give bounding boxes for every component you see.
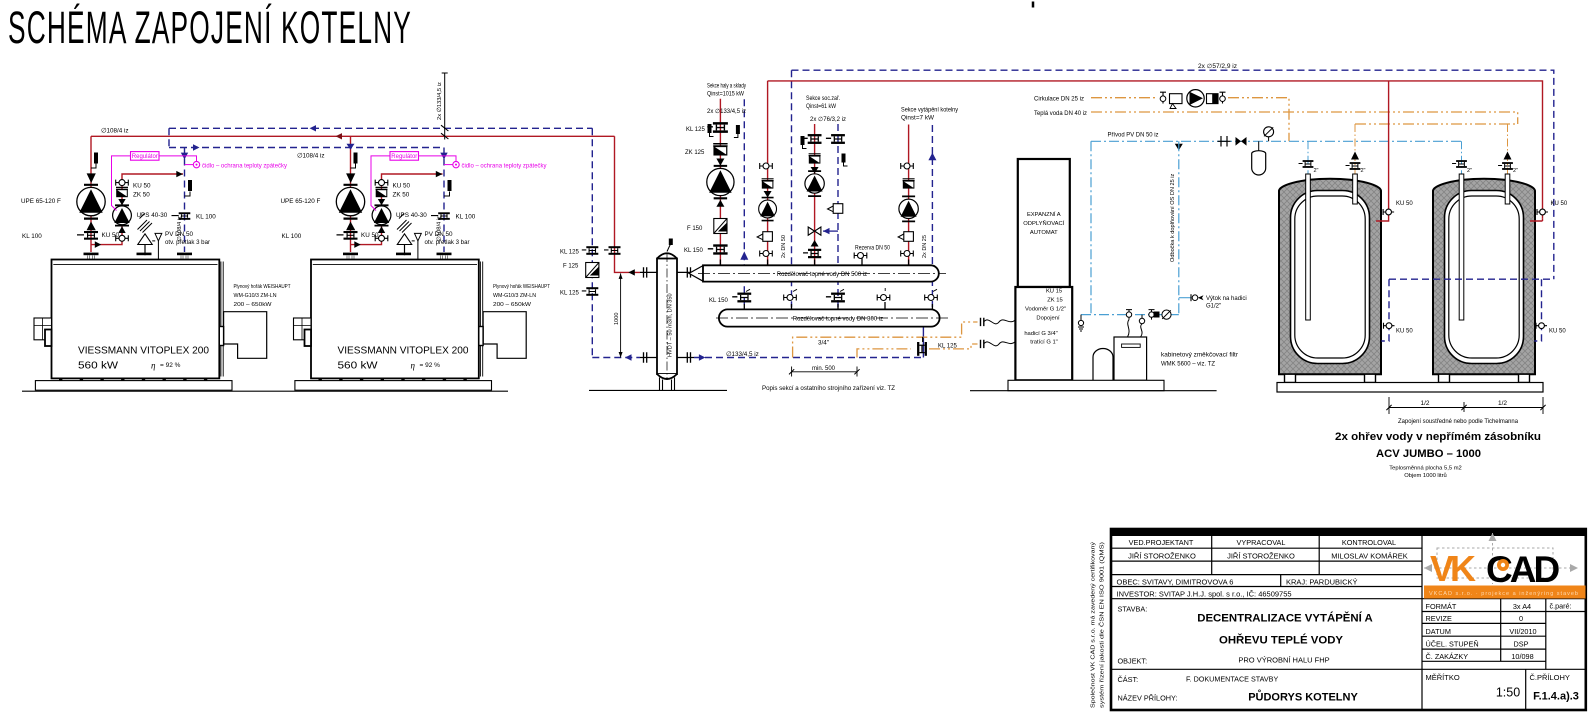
- svg-text:DATUM: DATUM: [1426, 627, 1451, 636]
- ground line under separator: [589, 389, 727, 391]
- supply distributor DN 500: [703, 265, 939, 281]
- boiler body VIESSMANN: [52, 260, 220, 379]
- valve KL 125: [707, 122, 728, 133]
- svg-text:2x ∅133/4,5 iz: 2x ∅133/4,5 iz: [436, 82, 443, 120]
- svg-text:2x ohřev vody v nepřímém zásob: 2x ohřev vody v nepřímém zásobníku: [1335, 431, 1541, 443]
- svg-text:Dopojení: Dopojení: [1036, 316, 1060, 322]
- svg-text:PRO VÝROBNÍ HALU FHP: PRO VÝROBNÍ HALU FHP: [1238, 656, 1329, 665]
- control wiring: [112, 156, 197, 211]
- svg-text:DECENTRALIZACE VYTÁPĚNÍ A: DECENTRALIZACE VYTÁPĚNÍ A: [1197, 612, 1373, 625]
- valve KU 50: [77, 231, 98, 240]
- pump UPE 65-120 F: [77, 185, 105, 219]
- circulation valve: [1160, 92, 1166, 103]
- hydraulic separator HVDT: [657, 253, 677, 258]
- branch 2 return riser: [837, 124, 839, 307]
- svg-text:∅108/4 iz: ∅108/4 iz: [297, 152, 325, 159]
- svg-text:REVIZE: REVIZE: [1426, 614, 1452, 623]
- separator ports with flanges: [640, 267, 657, 277]
- pressure gauge: [1268, 137, 1270, 142]
- svg-text:Objem 1000 litrů: Objem 1000 litrů: [1404, 472, 1447, 479]
- tanks base plate: [1277, 383, 1543, 393]
- softener hoses: [1128, 320, 1143, 337]
- valve KL 150: [708, 244, 728, 254]
- svg-text:Popis sekcí a ostatního strojn: Popis sekcí a ostatního strojního zaříze…: [762, 385, 895, 392]
- svg-text:Výtok na hadici: Výtok na hadici: [1206, 296, 1247, 302]
- tank body: [1279, 179, 1381, 375]
- wire return drop to boilers: [169, 128, 444, 147]
- svg-text:VII/2010: VII/2010: [1509, 627, 1536, 636]
- svg-text:Cirkulace DN 25 iz: Cirkulace DN 25 iz: [1034, 96, 1084, 103]
- drain at automat: [1078, 315, 1084, 331]
- dirt trap: [1170, 94, 1183, 104]
- svg-text:Sekce vytápění kotelny: Sekce vytápění kotelny: [901, 107, 959, 114]
- boiler nozzle: [84, 253, 99, 256]
- softening line KL 125: [857, 344, 978, 358]
- svg-text:10/098: 10/098: [1511, 652, 1533, 661]
- flow arrow return header: [310, 125, 317, 131]
- svg-text:1:50: 1:50: [1496, 686, 1520, 700]
- svg-text:Rozdělovač topné vody DN 500 i: Rozdělovač topné vody DN 500 iz: [777, 272, 867, 278]
- title block: [1091, 528, 1587, 710]
- flow arrow: [87, 173, 96, 183]
- small vent flags on stubs: [746, 288, 937, 292]
- check flap: [1207, 94, 1219, 104]
- svg-text:2": 2": [1467, 168, 1472, 174]
- pump UPS 40-30: [113, 205, 132, 225]
- svg-text:KL 100: KL 100: [22, 233, 42, 240]
- svg-text:Odbočka k doplňování OS DN 25: Odbočka k doplňování OS DN 25 iz: [1170, 173, 1176, 262]
- svg-text:Vodoměr G 1/2": Vodoměr G 1/2": [1025, 307, 1066, 313]
- svg-text:KL 125: KL 125: [560, 291, 579, 297]
- svg-text:Společnost VK CAD s.r.o. má za: Společnost VK CAD s.r.o. má zavedený cer…: [1091, 542, 1097, 708]
- feet: [1285, 374, 1296, 382]
- branch 1 column components: [684, 83, 748, 260]
- flow arrow: [87, 222, 96, 231]
- svg-text:CAD: CAD: [1486, 549, 1559, 590]
- flow arrow into separator: [628, 269, 635, 275]
- pump: [707, 166, 734, 198]
- svg-text:1/2: 1/2: [1498, 400, 1507, 407]
- svg-text:Sekce soc.zař.: Sekce soc.zař.: [806, 95, 840, 102]
- svg-text:VED.PROJEKTANT: VED.PROJEKTANT: [1129, 538, 1194, 547]
- valve KL 125 supply: [604, 246, 621, 255]
- flow arrow out of separator: [625, 354, 632, 360]
- wire make-up branch OS DN 25: [1081, 141, 1179, 314]
- svg-text:MILOSLAV KOMÁREK: MILOSLAV KOMÁREK: [1331, 552, 1408, 561]
- flow arrow: [95, 241, 101, 248]
- svg-text:2": 2": [1513, 168, 1518, 174]
- tank circuit supply riser: [767, 81, 769, 265]
- flow arrow into return: [176, 171, 183, 177]
- svg-text:ZK 125: ZK 125: [685, 150, 705, 156]
- tank spacing dimension: [1389, 397, 1543, 414]
- svg-text:KU 50: KU 50: [1551, 201, 1568, 207]
- svg-text:otv. přetlak 3 bar: otv. přetlak 3 bar: [165, 239, 210, 246]
- supply distributor cone: [689, 266, 703, 282]
- wire return collector to separator: [694, 357, 923, 359]
- expansion vessel: [1258, 141, 1260, 151]
- svg-text:JIŘÍ STOROŽENKO: JIŘÍ STOROŽENKO: [1227, 552, 1295, 561]
- svg-text:KU 15: KU 15: [1046, 289, 1062, 295]
- svg-text:EXPANZNÍ A: EXPANZNÍ A: [1027, 211, 1061, 218]
- svg-text:∅133/4,5 iz: ∅133/4,5 iz: [726, 351, 759, 358]
- svg-text:KU 50: KU 50: [102, 232, 120, 239]
- tank circuit column components: [757, 163, 787, 258]
- boiler front box: [34, 318, 52, 340]
- svg-text:OBEC: SVITAVY, DIMITROVOVA 6: OBEC: SVITAVY, DIMITROVOVA 6: [1117, 577, 1234, 586]
- discharge pipe to floor: [157, 241, 159, 339]
- svg-text:VYPRACOVAL: VYPRACOVAL: [1237, 538, 1286, 547]
- svg-text:SCHÉMA ZAPOJENÍ KOTELNY: SCHÉMA ZAPOJENÍ KOTELNY: [8, 2, 412, 53]
- svg-text:Regulátor: Regulátor: [132, 154, 158, 160]
- svg-text:Rezerva DN 50: Rezerva DN 50: [855, 246, 891, 252]
- svg-text:KL 125: KL 125: [560, 249, 579, 255]
- svg-text:F. DOKUMENTACE STAVBY: F. DOKUMENTACE STAVBY: [1186, 675, 1278, 684]
- wire return riser from separator: [592, 128, 640, 357]
- svg-text:KRAJ: PARDUBICKÝ: KRAJ: PARDUBICKÝ: [1286, 577, 1358, 586]
- svg-text:PŮDORYS KOTELNY: PŮDORYS KOTELNY: [1248, 690, 1358, 704]
- svg-text:Plynový hořák WEISHAUPT: Plynový hořák WEISHAUPT: [234, 284, 291, 290]
- tank1 hot water outlet: [1354, 124, 1356, 204]
- svg-text:F 150: F 150: [687, 226, 703, 232]
- fold mark: [1032, 2, 1035, 8]
- return collector DN 300: [719, 309, 940, 326]
- svg-text:DSP: DSP: [1513, 640, 1528, 649]
- svg-text:KU 50: KU 50: [1396, 329, 1413, 335]
- wire cold water feed PV DN 50: [1091, 141, 1462, 314]
- tank 2: [1433, 179, 1535, 383]
- flow arrow: [1175, 144, 1183, 151]
- valve KL 125 on fill: [917, 337, 927, 356]
- svg-text:2x DN 25: 2x DN 25: [922, 235, 928, 258]
- svg-text:∅108/4 iz: ∅108/4 iz: [101, 128, 129, 135]
- svg-text:Přívod PV DN 50 iz: Přívod PV DN 50 iz: [1108, 132, 1159, 139]
- svg-text:AUTOMAT: AUTOMAT: [1030, 230, 1058, 236]
- svg-text:Sekce haly a sklady: Sekce haly a sklady: [707, 83, 747, 90]
- hose couplings: [981, 318, 984, 326]
- frame: [1111, 529, 1586, 710]
- svg-text:tratící G 1": tratící G 1": [1030, 340, 1058, 346]
- svg-text:F.1.4.a).3: F.1.4.a).3: [1533, 691, 1579, 703]
- dimension min 500: [792, 367, 857, 377]
- boiler assembly group (boiler 1 at origin, boiler 2 shifted +259.5): [21, 136, 291, 390]
- branch 2 supply riser: [814, 124, 816, 265]
- svg-text:KU 50: KU 50: [1396, 201, 1413, 207]
- controller box Regulátor: [131, 152, 160, 161]
- tank 1 group: [1279, 179, 1381, 383]
- svg-text:č.paré:: č.paré:: [1550, 602, 1572, 611]
- svg-text:2x DN 50: 2x DN 50: [781, 235, 787, 258]
- thermometer T1: [91, 164, 96, 169]
- svg-text:FORMÁT: FORMÁT: [1426, 602, 1457, 611]
- svg-text:VIESSMANN VITOPLEX 200: VIESSMANN VITOPLEX 200: [78, 346, 209, 357]
- circulation valve 2: [1220, 92, 1226, 103]
- wire boiler supply header: [91, 135, 615, 137]
- svg-text:VK: VK: [1430, 548, 1476, 589]
- automat plinth: [1008, 380, 1164, 390]
- valve KL 125 return: [582, 246, 599, 255]
- svg-text:NÁZEV PŘÍLOHY:: NÁZEV PŘÍLOHY:: [1118, 694, 1178, 703]
- wire hot water line DN 40: [1091, 112, 1518, 124]
- sensor čidlo: [185, 164, 194, 166]
- ground line under boilers: [22, 390, 508, 392]
- svg-text:Rozdělovač topné vody DN 300 i: Rozdělovač topné vody DN 300 iz: [793, 317, 883, 323]
- valve KU 50 upper: [116, 180, 129, 186]
- burner: [224, 312, 267, 359]
- dimension callout 2x ∅133/4,5: [442, 73, 448, 140]
- svg-text:WMK 5600 – viz. TZ: WMK 5600 – viz. TZ: [1161, 362, 1215, 368]
- return thermometer: [185, 192, 191, 197]
- valve KL 125 return lower: [582, 287, 599, 296]
- svg-text:560 kW: 560 kW: [78, 361, 118, 372]
- svg-text:ZK 50: ZK 50: [133, 192, 150, 199]
- distributor stubs: [720, 258, 908, 265]
- boiler return nozzle: [177, 253, 192, 256]
- flow arrow: [118, 199, 125, 205]
- tank1 sensor well: [1307, 141, 1309, 318]
- branch 3 supply riser: [908, 125, 910, 266]
- svg-text:UPS 40-30: UPS 40-30: [137, 212, 168, 219]
- svg-text:WM-G10/3 ZM-LN: WM-G10/3 ZM-LN: [234, 293, 277, 299]
- svg-text:Qinst=7 kW: Qinst=7 kW: [901, 115, 934, 122]
- ground line: [970, 390, 1217, 392]
- svg-text:ÚČEL. STUPEŇ: ÚČEL. STUPEŇ: [1426, 640, 1479, 649]
- tank cavity: [1291, 191, 1370, 364]
- svg-text:OBJEKT:: OBJEKT:: [1118, 657, 1148, 666]
- branch 3 column components: [898, 107, 959, 259]
- svg-text:systém řízení jakosti dle ČSN: systém řízení jakosti dle ČSN EN ISO 900…: [1099, 542, 1106, 708]
- safety valve PV DN 50: [144, 245, 146, 256]
- svg-text:0: 0: [1519, 614, 1523, 623]
- svg-text:Č.PŘÍLOHY: Č.PŘÍLOHY: [1530, 673, 1570, 682]
- branch 1 return riser: [743, 99, 745, 307]
- discharge funnel: [152, 233, 162, 241]
- svg-text:VKCAD s.r.o. · projekce a in: VKCAD s.r.o. · projekce a inženýring sta…: [1429, 591, 1579, 597]
- svg-text:MĚŘÍTKO: MĚŘÍTKO: [1426, 673, 1460, 682]
- svg-text:HVDT – 50 m3/h, DN 350: HVDT – 50 m3/h, DN 350: [668, 293, 674, 357]
- svg-text:G1/2": G1/2": [1206, 303, 1221, 309]
- boiler feet: [59, 378, 207, 380]
- svg-text:KL 125: KL 125: [938, 343, 957, 349]
- svg-text:2x ∅57/2,9 iz: 2x ∅57/2,9 iz: [1198, 63, 1237, 70]
- flow arrow return: [193, 144, 200, 150]
- expansion automat: [1018, 159, 1070, 287]
- svg-text:Zapojení soustředné nebo podle: Zapojení soustředné nebo podle Tichelman…: [1398, 419, 1519, 425]
- wire supply drop to separator: [615, 136, 641, 272]
- wire tank heating returns: [1381, 279, 1554, 341]
- valve KU 50 bypass: [116, 235, 129, 241]
- svg-text:2": 2": [1361, 168, 1366, 174]
- branch 3 return riser: [931, 125, 933, 307]
- check valve ZK 50: [116, 187, 128, 196]
- svg-text:F 125: F 125: [563, 263, 579, 269]
- VK CAD logo: [1424, 533, 1586, 599]
- tank2 sensor well: [1461, 141, 1463, 318]
- tank2 heating supply: [1530, 219, 1543, 221]
- wire tank supply header: [768, 81, 1543, 219]
- svg-text:∅108/4 iz: ∅108/4 iz: [176, 216, 183, 241]
- tank circuit return riser: [791, 70, 793, 307]
- svg-text:KL 150: KL 150: [684, 248, 703, 254]
- svg-text:2": 2": [1314, 168, 1319, 174]
- svg-text:OHŘEVU TEPLÉ VODY: OHŘEVU TEPLÉ VODY: [1219, 634, 1343, 647]
- filter F 150: [714, 219, 727, 234]
- svg-text:hadicí G 3/4": hadicí G 3/4": [1024, 331, 1057, 337]
- tank2 hot water outlet: [1507, 124, 1509, 204]
- boiler 2 assembly: [281, 136, 551, 390]
- svg-text:STAVBA:: STAVBA:: [1118, 605, 1148, 614]
- svg-text:KL 150: KL 150: [709, 298, 728, 304]
- svg-text:3/4": 3/4": [818, 340, 829, 347]
- wire boiler return header: [169, 127, 592, 129]
- flow arrow on return: [181, 153, 188, 160]
- svg-text:UPE 65-120 F: UPE 65-120 F: [21, 198, 61, 205]
- svg-text:Qinst=61 kW: Qinst=61 kW: [806, 103, 836, 110]
- svg-text:= 92 %: = 92 %: [160, 362, 181, 369]
- svg-text:ODPLYŇOVACÍ: ODPLYŇOVACÍ: [1023, 220, 1064, 227]
- wire collector drop: [922, 327, 924, 358]
- svg-text:KU 50: KU 50: [133, 182, 151, 189]
- flow arrow supply header: [336, 133, 343, 139]
- svg-text:ČÁST:: ČÁST:: [1118, 675, 1139, 684]
- svg-text:Teplosměnná plocha 5,5 m2: Teplosměnná plocha 5,5 m2: [1389, 466, 1462, 472]
- wire return pipe: [184, 148, 186, 253]
- svg-text:min. 500: min. 500: [812, 366, 836, 372]
- svg-text:200 – 650kW: 200 – 650kW: [234, 302, 273, 308]
- svg-text:KL 100: KL 100: [196, 214, 216, 221]
- dimension 1000: [620, 273, 622, 357]
- branch 2 column components: [801, 95, 848, 258]
- svg-text:η: η: [151, 361, 156, 371]
- wire tank return header 2x ∅57/2,9: [792, 70, 1554, 279]
- hose bib branch: [1179, 297, 1191, 299]
- svg-text:Teplá voda DN 40 iz: Teplá voda DN 40 iz: [1034, 110, 1087, 117]
- wire circulation line: [1091, 98, 1289, 142]
- branch 1 supply riser: [719, 99, 721, 265]
- wire supply pipe: [90, 136, 92, 252]
- softener unit: [1093, 349, 1113, 381]
- svg-text:čidlo – ochrana teploty zpáteč: čidlo – ochrana teploty zpátečky: [202, 163, 288, 170]
- svg-text:2x ∅133/4,5 iz: 2x ∅133/4,5 iz: [707, 108, 746, 115]
- svg-text:1/2: 1/2: [1421, 400, 1430, 407]
- collector stub valves: [732, 293, 751, 303]
- svg-text:ZK 15: ZK 15: [1047, 298, 1062, 304]
- svg-text:KU 50: KU 50: [1549, 329, 1566, 335]
- svg-text:kabinetový změkčovací filtr: kabinetový změkčovací filtr: [1161, 353, 1238, 359]
- check valve ZK 125: [713, 144, 727, 155]
- return arrow: [740, 251, 748, 259]
- three-way mixing valve: [808, 227, 821, 235]
- circulation pump: [1187, 90, 1204, 107]
- svg-text:2x ∅76/3,2 iz: 2x ∅76/3,2 iz: [810, 116, 846, 123]
- svg-text:KONTROLOVAL: KONTROLOVAL: [1342, 538, 1396, 547]
- svg-text:Č. ZAKÁZKY: Č. ZAKÁZKY: [1426, 652, 1469, 661]
- fill line 3/4": [793, 322, 978, 358]
- svg-text:INVESTOR: SVITAP J.H.J. spol.: INVESTOR: SVITAP J.H.J. spol. s r.o., IČ…: [1117, 590, 1292, 599]
- air vent: [667, 243, 671, 252]
- svg-text:Qinst=1015 kW: Qinst=1015 kW: [707, 91, 744, 98]
- wire bypass pipe: [91, 174, 183, 245]
- svg-text:čidlo – ochrana teploty zpáteč: čidlo – ochrana teploty zpátečky: [462, 163, 548, 170]
- svg-text:1000: 1000: [614, 313, 620, 325]
- crossing mark boiler2 supply: [347, 144, 355, 150]
- svg-text:3x A4: 3x A4: [1513, 602, 1531, 611]
- tank1 heating supply: [1376, 81, 1389, 221]
- boiler plinth: [35, 381, 232, 391]
- grid lines: [1111, 548, 1586, 669]
- softener feed valves: [1126, 310, 1132, 320]
- valve KL 100: [172, 212, 191, 220]
- svg-text:JIŘÍ STOROŽENKO: JIŘÍ STOROŽENKO: [1128, 552, 1196, 561]
- feed valve pair: [1218, 136, 1231, 147]
- svg-text:KL 125: KL 125: [686, 127, 705, 133]
- flow arrow: [118, 226, 125, 233]
- svg-text:ACV JUMBO – 1000: ACV JUMBO – 1000: [1376, 448, 1481, 460]
- filter F 125: [586, 263, 599, 278]
